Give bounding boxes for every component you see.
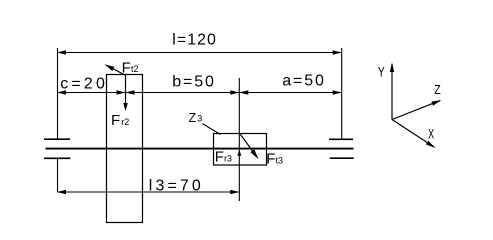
gear 3 outline	[214, 134, 267, 166]
dimension l3=70 right arrow	[230, 190, 239, 194]
svg-text:l3=70: l3=70	[149, 178, 204, 195]
axis X arrowhead	[426, 141, 436, 148]
svg-text:F: F	[266, 151, 275, 168]
dimension l3=70 line	[57, 191, 239, 193]
svg-text:c=20: c=20	[60, 76, 108, 93]
force Ft3 arrowhead	[250, 149, 258, 159]
force Ft3 line	[240, 134, 257, 157]
force Fr2 line	[125, 75, 127, 104]
svg-text:r3: r3	[224, 154, 232, 164]
shaft centerline	[46, 148, 354, 150]
gear 3 centre extension line	[238, 78, 240, 201]
svg-text:3: 3	[197, 114, 202, 124]
svg-text:Z: Z	[434, 82, 441, 97]
axis Y line	[391, 64, 393, 120]
dimension b=50 right arrow	[230, 90, 239, 94]
svg-text:F: F	[122, 59, 131, 76]
axis Z arrowhead	[431, 100, 441, 106]
axis Y arrowhead	[390, 63, 394, 73]
extension line right (x=341.7)	[341, 48, 343, 139]
dimension a=50 left arrow	[239, 90, 248, 94]
svg-text:Y: Y	[378, 64, 385, 79]
bearing left upper bar	[44, 138, 70, 140]
Z3 leader line	[202, 124, 220, 135]
svg-text:F: F	[111, 112, 120, 129]
force Ft2 line	[106, 65, 125, 75]
bearing left lower bar	[44, 157, 70, 159]
dimension b=50 left arrow	[126, 90, 135, 94]
dimension l3=70 left arrow	[57, 190, 66, 194]
dimension row c/b/a line	[57, 92, 342, 94]
svg-text:a=50: a=50	[282, 73, 326, 90]
bearing right upper bar	[329, 138, 353, 140]
dimension c=20 right arrow	[117, 90, 126, 94]
dimension c=20 left arrow	[57, 90, 66, 94]
force Fr3 arrowhead	[237, 150, 241, 156]
force Ft2 arrowhead	[105, 64, 115, 71]
svg-text:b=50: b=50	[172, 74, 216, 91]
force Fr2 arrowhead	[123, 103, 128, 111]
dimension a=50 right arrow	[333, 90, 342, 94]
bearing left lower stem	[57, 158, 59, 192]
svg-text:Z: Z	[189, 111, 197, 125]
svg-text:X: X	[428, 127, 434, 142]
dimension l=120 left arrow	[57, 50, 66, 54]
svg-text:r2: r2	[121, 117, 129, 127]
gear 2 outline	[107, 75, 143, 223]
axis Z line	[392, 101, 440, 120]
bearing right lower bar	[330, 157, 354, 159]
dimension l=120 right arrow	[333, 50, 342, 54]
dimension l=120 line	[57, 52, 342, 54]
svg-text:l=120: l=120	[172, 32, 217, 49]
svg-text:t3: t3	[276, 156, 284, 166]
extension line left (x=57)	[57, 48, 59, 139]
svg-text:t2: t2	[131, 64, 139, 74]
svg-text:F: F	[215, 149, 224, 166]
axis X line	[392, 120, 434, 148]
